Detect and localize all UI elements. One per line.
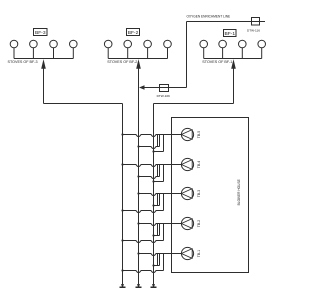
- svg-text:TB-5: TB-5: [197, 131, 201, 138]
- svg-text:STOVES OF BF-1: STOVES OF BF-1: [202, 60, 232, 64]
- svg-text:DTW-116: DTW-116: [247, 28, 260, 32]
- svg-text:STOVES OF BF-3: STOVES OF BF-3: [8, 60, 38, 64]
- svg-text:BF-3: BF-3: [35, 30, 46, 36]
- svg-text:BF-1: BF-1: [224, 31, 235, 37]
- svg-text:OXYGEN ENRICHMENT LINE: OXYGEN ENRICHMENT LINE: [187, 14, 231, 18]
- svg-text:TB-4: TB-4: [197, 161, 201, 168]
- svg-text:BF-2: BF-2: [128, 30, 139, 36]
- svg-text:TB-1: TB-1: [197, 250, 201, 257]
- svg-text:STOVES OF BF-2: STOVES OF BF-2: [107, 60, 137, 64]
- svg-text:DTW-109: DTW-109: [157, 94, 170, 98]
- svg-text:TB-3: TB-3: [197, 190, 201, 197]
- svg-text:TB-2: TB-2: [197, 220, 201, 227]
- svg-text:BLOWER HOUSE: BLOWER HOUSE: [237, 179, 241, 205]
